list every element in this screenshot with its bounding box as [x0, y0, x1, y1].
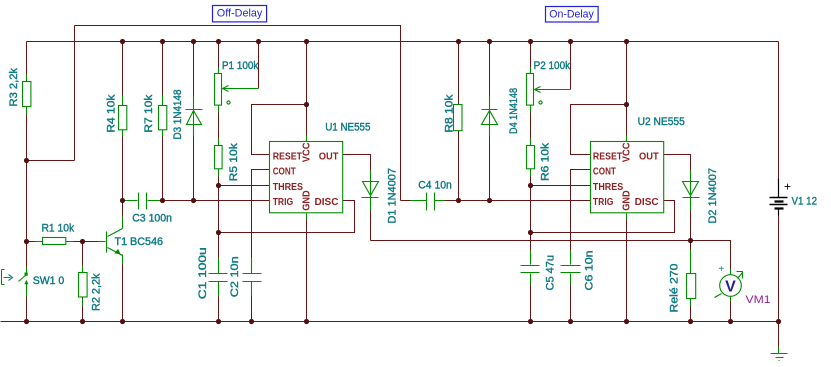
wire SW1 leads — [26, 268, 28, 297]
wire VCC1 lead — [306, 136, 308, 142]
potentiometer P2 100k body — [527, 74, 534, 106]
wire T1 emitter to ground rail — [122, 255, 124, 322]
junction node (26.4,160.5) — [24, 158, 29, 163]
svg-text:D2 1N4007: D2 1N4007 — [707, 168, 719, 224]
wire P1 wiper vertical — [258, 42, 260, 89]
wire GND2 pin to ground rail — [626, 214, 628, 322]
switch SW1 lower contact arrow — [24, 280, 28, 285]
wire D1 to D2 output line — [371, 240, 691, 242]
resistor R1 10k — [43, 238, 66, 245]
capacitor C5 47u — [521, 266, 540, 273]
wire DISC2 tie to THRES2 — [531, 201, 675, 233]
potentiometer P2 wiper arrow — [535, 87, 571, 93]
svg-text:THRES: THRES — [273, 182, 304, 193]
switch SW1 lever — [19, 275, 27, 282]
ground symbol — [771, 348, 788, 361]
junction node (82.3,241) — [80, 239, 85, 244]
wire C5 leads — [530, 251, 532, 285]
svg-text:C6 10n: C6 10n — [584, 251, 596, 291]
wire SW1 to ground rail — [26, 282, 28, 322]
wire R2 column — [82, 242, 84, 322]
switch SW1 actuator bracket — [2, 270, 5, 285]
svg-text:T1 BC546: T1 BC546 — [115, 236, 164, 248]
junction node (218,185.2) — [216, 183, 221, 188]
svg-text:C1 100u: C1 100u — [197, 247, 209, 299]
resistor R7 10k — [159, 106, 167, 130]
wire R1 leads — [35, 241, 74, 243]
svg-text:VCC: VCC — [622, 143, 633, 163]
wire OUT1 to D1 — [343, 155, 371, 241]
junction on ground rail x=730.4 — [728, 319, 733, 324]
svg-text:VCC: VCC — [301, 143, 312, 163]
junction on VCC rail x=306.4 — [304, 39, 309, 44]
wire D2 leads — [690, 171, 692, 211]
junction on VCC rail x=258.5 — [256, 39, 261, 44]
svg-text:CONT: CONT — [273, 167, 296, 178]
wire OUT2 to D2 — [664, 155, 691, 241]
wire ground symbol drop — [778, 322, 780, 348]
wire DISC1 tie to THRES1 — [219, 201, 355, 233]
junction on ground rail x=570.7 — [568, 319, 573, 324]
junction on ground rail x=26.4 — [24, 319, 29, 324]
junction on VCC rail x=162.4 — [160, 39, 165, 44]
wire R4 column — [122, 42, 124, 201]
capacitor C1 100u — [209, 274, 228, 282]
junction on ground rail x=82.3 — [80, 319, 85, 324]
switch SW1 actuator arrow — [4, 275, 13, 281]
junction on ground rail x=122.4 — [120, 319, 125, 324]
wire TRIG2 net — [459, 200, 591, 202]
wire C6 to ground rail — [570, 274, 572, 322]
wire R3 SW1 column — [26, 42, 28, 275]
svg-text:RESET: RESET — [273, 151, 302, 162]
wire C4 left lead — [401, 200, 427, 202]
junction on VCC rail x=626.5 — [624, 39, 629, 44]
svg-text:P1 100k: P1 100k — [222, 60, 259, 72]
wire R3 leads — [26, 75, 28, 115]
svg-text:C3 100n: C3 100n — [132, 213, 172, 225]
Off-Delay frame — [213, 6, 267, 22]
svg-text:+: + — [784, 179, 791, 193]
junction node (530,185.2) — [528, 183, 533, 188]
svg-text:D1 1N4007: D1 1N4007 — [387, 168, 399, 224]
wire THRES2 net — [531, 185, 591, 187]
junction node (193.9,200.8) — [191, 198, 196, 203]
wire GND2 lead — [626, 214, 628, 220]
wire C5 to ground rail — [530, 274, 532, 322]
junction node (162.4,200.8) — [160, 198, 165, 203]
potentiometer P1 open terminal circle — [227, 101, 230, 104]
wire VCC2 pin — [626, 42, 628, 142]
svg-text:TRIG: TRIG — [273, 197, 294, 208]
wire C6 leads — [570, 251, 572, 285]
wire C2 leads — [251, 258, 253, 296]
svg-text:GND: GND — [301, 190, 312, 211]
wire battery top — [778, 42, 780, 198]
junction on ground rail x=218 — [216, 319, 221, 324]
svg-text:DISC: DISC — [635, 197, 659, 208]
wire D1 leads — [370, 171, 372, 211]
wire CONT2 to C6 — [571, 170, 591, 265]
wire R7 column — [162, 42, 164, 201]
wire R4 leads — [122, 96, 124, 137]
svg-text:GND: GND — [622, 190, 633, 211]
wire voltmeter to ground rail — [730, 296, 732, 322]
junction node (626.5,104.6) — [624, 102, 629, 107]
relay coil Rele 270 — [687, 274, 696, 299]
wire T1 collector stub — [122, 201, 124, 218]
diode D3 1N4148 — [186, 110, 203, 125]
wire top trigger rail — [75, 26, 401, 201]
wire C1 to ground rail — [218, 282, 220, 322]
junction on VCC rail x=458 — [456, 39, 461, 44]
wire C2 to ground rail — [251, 282, 253, 322]
wire P2 wiper vertical over label — [570, 59, 572, 71]
wire GND1 pin to ground rail — [306, 214, 308, 322]
wire R7 leads — [162, 96, 164, 137]
junction node (218,232.4) — [216, 230, 221, 235]
wire GND1 lead — [306, 214, 308, 220]
junction on ground rail x=530 — [528, 319, 533, 324]
wire R5 leads — [218, 139, 220, 177]
svg-text:THRES: THRES — [593, 182, 624, 193]
transistor T1 BC546 — [107, 217, 123, 264]
wire ground rail — [1, 321, 779, 323]
wire RESET2 net — [571, 105, 627, 155]
junction node (306.4,104.6) — [304, 102, 309, 107]
diode D1 1N4007 — [362, 182, 379, 198]
junction on VCC rail x=193.9 — [191, 39, 196, 44]
resistor R2 2,2k — [79, 273, 88, 298]
op-amp/timer IC U1 NE555 box — [270, 142, 343, 213]
junction node (458,200.8) — [456, 198, 461, 203]
battery V1 12 — [770, 179, 792, 216]
wire R6 leads — [530, 139, 532, 177]
capacitor C4 10n plates — [427, 193, 435, 211]
junction on ground rail x=690.6 — [688, 319, 693, 324]
svg-text:+: + — [718, 264, 724, 275]
wire trigger vertical — [74, 26, 76, 161]
svg-text:R2 2,2k: R2 2,2k — [91, 273, 103, 311]
junction on ground rail x=778.6 — [776, 319, 781, 324]
wire C4 to R8 junction — [435, 200, 459, 202]
svg-text:OUT: OUT — [319, 151, 339, 162]
wire THRES1 net — [219, 185, 270, 187]
svg-text:R4 10k: R4 10k — [106, 94, 118, 133]
wire P2 R6 C5 column — [530, 42, 532, 265]
wire R1 row — [27, 241, 106, 243]
resistor R6 10k — [527, 146, 535, 169]
wire T1 base lead — [98, 241, 106, 243]
wire RESET1 net — [252, 105, 307, 155]
wire D4 leads — [489, 97, 491, 137]
junction on VCC rail x=489.7 — [487, 39, 492, 44]
wire CONT1 to C2 — [252, 170, 270, 274]
wire to voltmeter VM1 — [691, 241, 731, 276]
potentiometer P1 100k body — [215, 74, 222, 106]
svg-text:CONT: CONT — [593, 167, 616, 178]
wire TRIG1 net left of C3 — [123, 200, 138, 202]
junction node (489.7,200.8) — [487, 198, 492, 203]
svg-text:C4 10n: C4 10n — [418, 179, 452, 191]
wire P2 wiper vertical — [570, 42, 572, 90]
wire R3 bottom to trigger vertical — [27, 160, 75, 162]
wire VCC2 lead — [626, 136, 628, 142]
wire D3 leads — [193, 97, 195, 137]
wire R8 column — [458, 42, 460, 201]
wire TRIG1 net right of C3 — [148, 200, 270, 202]
junction on ground rail x=626.5 — [624, 319, 629, 324]
wire P1 leads — [218, 68, 220, 113]
junction on VCC rail x=122.5 — [120, 39, 125, 44]
wire P2 leads — [530, 68, 532, 113]
svg-text:On-Delay: On-Delay — [549, 8, 594, 20]
wire VCC supply rail — [27, 41, 779, 43]
voltmeter VM1 — [715, 264, 743, 298]
svg-text:U1 NE555: U1 NE555 — [325, 122, 370, 134]
wire VCC1 pin — [306, 42, 308, 142]
svg-text:D4 1N4148: D4 1N4148 — [508, 88, 520, 134]
svg-text:DISC: DISC — [315, 197, 339, 208]
svg-text:C5 47u: C5 47u — [545, 255, 557, 291]
wire C1 leads — [218, 258, 220, 296]
switch SW1 contact — [25, 273, 28, 276]
diode D2 1N4007 — [683, 182, 700, 198]
svg-text:R5 10k: R5 10k — [228, 143, 240, 182]
wire D3 column — [193, 42, 195, 201]
svg-text:R3 2,2k: R3 2,2k — [8, 68, 20, 107]
svg-text:V: V — [725, 279, 736, 296]
svg-text:OUT: OUT — [639, 151, 659, 162]
svg-text:VM1: VM1 — [746, 294, 771, 306]
diode D4 1N4148 — [482, 110, 498, 125]
wire C4 leads — [411, 200, 445, 202]
wire P1 wiper vertical over label — [258, 59, 260, 71]
wire relay column — [690, 241, 692, 322]
wire D4 column — [489, 42, 491, 201]
svg-text:R6 10k: R6 10k — [540, 142, 552, 181]
svg-text:SW1 0: SW1 0 — [33, 275, 65, 287]
capacitor C6 10n — [561, 266, 581, 273]
junction on VCC rail x=570.7 — [568, 39, 573, 44]
svg-text:R1 10k: R1 10k — [42, 223, 75, 235]
junction node (122.5,200.8) — [120, 198, 125, 203]
op-amp/timer IC U2 NE555 box — [591, 142, 664, 213]
potentiometer P2 open terminal circle — [539, 101, 542, 104]
junction node (690.6,240.9) — [688, 238, 693, 243]
resistor R3 2,2k — [23, 82, 31, 107]
wire battery bottom — [778, 209, 780, 322]
wire voltmeter leads — [730, 270, 732, 302]
wire R2 leads — [82, 266, 84, 306]
resistor R5 10k — [215, 146, 223, 169]
svg-text:C2 10n: C2 10n — [229, 256, 241, 297]
capacitor C3 100n plates — [139, 193, 147, 210]
potentiometer P1 wiper arrow — [223, 86, 259, 92]
wire relay leads — [690, 250, 692, 306]
wire P1 R5 C1 column — [218, 42, 220, 274]
capacitor C2 10n — [243, 274, 262, 282]
svg-text:U2 NE555: U2 NE555 — [638, 116, 685, 128]
svg-text:R7 10k: R7 10k — [143, 94, 155, 133]
On-Delay frame — [546, 7, 599, 23]
junction on VCC rail x=530 — [528, 39, 533, 44]
svg-text:P2 100k: P2 100k — [534, 60, 571, 72]
junction node (26.4,241) — [24, 239, 29, 244]
junction on ground rail x=251.8 — [249, 319, 254, 324]
junction on VCC rail x=218 — [216, 39, 221, 44]
svg-text:TRIG: TRIG — [593, 197, 614, 208]
wire C3 leads — [124, 200, 162, 202]
svg-text:Relé 270: Relé 270 — [669, 264, 681, 313]
resistor R4 10k — [119, 106, 127, 130]
svg-text:D3 1N4148: D3 1N4148 — [172, 90, 184, 140]
junction node (530,232.4) — [528, 230, 533, 235]
resistor R8 10k — [454, 105, 463, 131]
svg-text:Off-Delay: Off-Delay — [217, 7, 263, 19]
svg-text:R8 10k: R8 10k — [444, 94, 456, 133]
junction on ground rail x=306.3 — [304, 319, 309, 324]
svg-text:RESET: RESET — [593, 151, 622, 162]
svg-text:V1 12: V1 12 — [792, 196, 818, 208]
